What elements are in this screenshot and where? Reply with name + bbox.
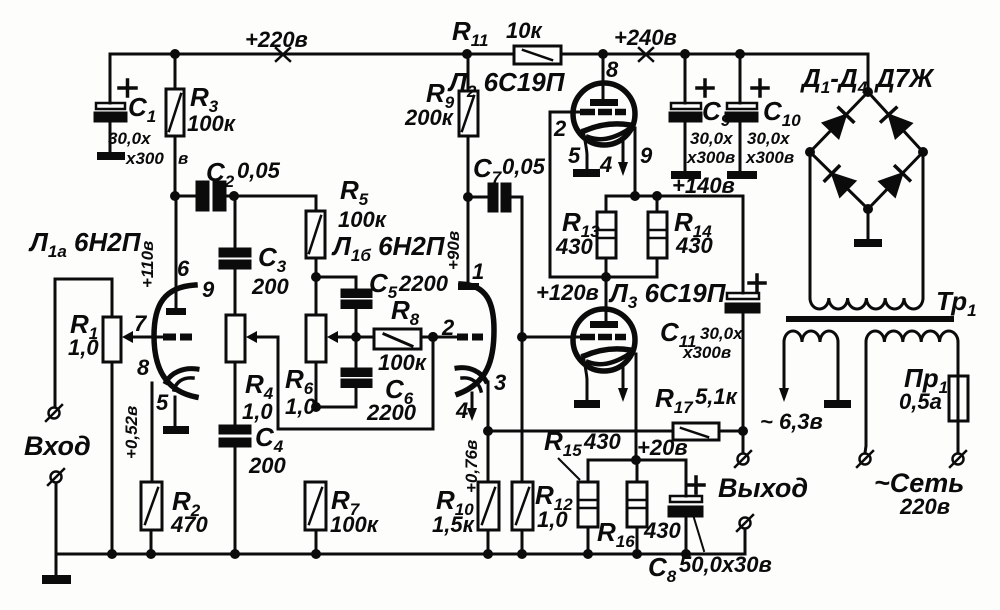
ground main symbol [42,554,71,584]
wire top bus [110,53,868,56]
label R13 value 430 [555,207,600,259]
wire L3 grid lead [522,336,580,339]
wire L3 cathode pin9 lead [635,354,638,460]
svg-text:1,0: 1,0 [68,335,99,360]
resistor R8 [356,329,433,349]
resistor R9 [459,54,478,197]
wire feedback loop R8 to R4 [252,337,433,429]
node break mark x +220v [276,48,290,61]
svg-text:430: 430 [643,518,681,543]
wire heater winding left lead arrow [779,342,789,402]
node R14 top junction [652,191,662,201]
resistor R5 [306,211,325,315]
svg-text:7: 7 [134,311,148,336]
label pin 2 L2 [553,116,567,141]
wire C3 chain [234,196,237,554]
svg-text:2: 2 [553,116,567,141]
capacitor C9 [670,54,713,171]
svg-text:+110в: +110в [138,241,157,288]
wire heater winding right lead [837,342,840,400]
triode L1b anode lead pin1 [467,197,470,283]
resistor R17 [673,423,719,440]
svg-text:Вход: Вход [24,431,91,461]
svg-text:100к: 100к [330,512,380,537]
svg-text:3: 3 [494,370,506,395]
label fuse Pr1 value [899,363,948,414]
label C1 value [108,92,188,168]
label C5 value 2200 [369,268,449,302]
label +110v vertical [138,241,157,288]
label tube L1b type [331,231,446,265]
wire transformer primary leads [810,152,923,298]
ground bar heater winding [824,400,851,408]
node C7 left junction [463,192,473,202]
wire L3 heater arrow [618,364,628,402]
label R2 value 470 [170,486,208,537]
resistor R1 potentiometer [55,279,121,554]
wire bridge bottom lead [867,209,870,239]
node R8 right junction [428,332,438,342]
svg-text:200к: 200к [404,105,455,130]
triode L1b grid dashes pin2 [457,334,483,341]
capacitor C7 [468,184,522,211]
svg-text:100к: 100к [378,350,428,375]
capacitor C11 [726,196,765,431]
label R17 value 5,1k [655,383,739,417]
transformer Tr1 mains winding [866,331,958,342]
svg-text:50,0х30в: 50,0х30в [679,552,772,577]
wire arrow into R4 [246,331,257,343]
svg-text:1,0: 1,0 [537,507,568,532]
resistor R6 potentiometer [306,315,355,407]
triode L1a cathode arc [166,369,197,390]
diode D3 lower left [825,166,855,196]
label R16 value 430 [597,517,681,551]
node output junction [738,426,748,436]
triode L1a grid dashes pin7 [163,334,192,341]
triode L2 anode lead pin8 [602,54,605,99]
label output [718,473,808,503]
svg-text:30,0х: 30,0х [747,129,791,148]
label C7 value 0,05 [473,153,546,187]
svg-text:1,0: 1,0 [285,394,316,419]
label pin 6 L1a [177,256,190,281]
wire L1b heater arrow pin4 [467,393,477,421]
label tube L1a type [28,227,142,261]
transformer Tr1 core [786,316,954,322]
label pin 2 L1b [441,315,455,340]
svg-text:4: 4 [455,398,468,423]
svg-text:9: 9 [202,277,215,302]
svg-text:+20в: +20в [637,435,688,460]
wire L3 pin5 lead [583,355,587,400]
svg-text:30,0х: 30,0х [700,324,744,343]
ground bar bridge [854,239,882,247]
label R3 value 100k [187,82,237,136]
svg-text:в: в [178,149,188,168]
svg-text:Л2 6С19П: Л2 6С19П [447,67,566,101]
label pin 5 L1a [156,390,169,415]
label R4 value 1,0 [242,369,274,424]
label pin 8 L1a [137,355,150,380]
label C6 value 2200 [366,374,417,425]
svg-text:220в: 220в [899,494,950,519]
label pin 7 L1a [134,311,148,336]
diode D2 upper right [881,108,911,138]
label mains 220v [874,468,964,519]
node R5 bottom junction [311,272,321,282]
label tube L2 type [447,67,566,101]
terminal output upper [735,431,751,467]
ground bar C9 [671,171,701,179]
ground bar L1a pin5 [163,426,189,434]
wire +20v rail R15 R16 C8 [588,460,686,496]
capacitor C10 [726,54,768,171]
svg-text:1,0: 1,0 [242,399,273,424]
resistor R2 [141,482,162,554]
node L3 grid junction [517,332,527,342]
triode L3 grid dashes [580,334,626,341]
node A1 anode junction [170,191,180,201]
terminal mains right [950,451,966,467]
svg-text:~ 6,3в: ~ 6,3в [760,409,823,434]
resistor R14 [648,196,667,277]
svg-text:+120в: +120в [536,280,599,305]
node R6 C6 bottom junction [311,402,321,412]
wire L1b grid lead [433,336,457,339]
resistor R7 [305,482,326,554]
wire L1a grid to R1 arrow [122,331,163,343]
triode L3 anode lead [605,277,608,321]
svg-text:Л3 6С19П: Л3 6С19П [608,278,727,312]
capacitor C2 [175,182,234,210]
node L3 cathode R16 junction [631,455,641,465]
label R15 value 430 [544,426,621,480]
svg-text:9: 9 [640,143,653,168]
resistor R11 [514,46,561,64]
terminal input lower [48,469,64,554]
label R5 value 100k [338,175,388,232]
svg-text:5: 5 [156,390,169,415]
label +220v [245,27,308,52]
triode L2 cathode arc [584,124,630,139]
svg-text:430: 430 [583,429,621,454]
svg-text:2: 2 [441,315,455,340]
node break mark x +240v [639,48,653,61]
svg-text:8: 8 [606,57,619,82]
label R7 value 100k [330,485,380,537]
triode L1b anode plate [458,283,479,290]
svg-text:0,05: 0,05 [237,158,281,183]
wire L2 cathode pin9 lead [634,128,637,196]
transformer Tr1 heater winding 6.3v [784,331,838,342]
triode L3 anode plate [590,321,618,328]
label +20v [637,435,688,460]
terminal output lower [737,515,753,554]
resistor R3 [166,54,184,196]
svg-text:+0,76в: +0,76в [462,440,481,493]
svg-text:2200: 2200 [398,271,449,296]
label transformer Tr1 [936,286,977,320]
triode L2 envelope circle [573,83,635,145]
triode U-L1a anode lead pin6 [175,196,178,308]
svg-text:Л1б 6Н2П: Л1б 6Н2П [331,231,446,265]
svg-text:5,1к: 5,1к [695,384,739,409]
wire L2 pin5 lead [583,130,587,169]
triode L1a envelope arc [154,285,196,397]
diode bridge frame [810,92,923,209]
resistor R12 [512,482,533,554]
label +0,52v vertical [122,406,141,459]
resistor R10 [478,482,499,554]
svg-text:х300: х300 [125,149,164,168]
resistor R15 [578,482,598,554]
label C10 value [745,96,801,167]
wire mains winding left lead [865,342,866,453]
triode L3 envelope circle [573,309,635,371]
node pin9 rail junction [630,191,640,201]
svg-text:430: 430 [555,234,593,259]
capacitor C3 [220,249,250,268]
label R1 value 1,0 [68,309,99,360]
wire mains winding right lead [957,342,960,376]
svg-text:1,5к: 1,5к [432,512,476,537]
svg-text:+0,52в: +0,52в [122,406,141,459]
label pin 4 L1b [455,398,468,423]
capacitor C4 [220,426,250,446]
svg-text:100к: 100к [338,207,388,232]
label +120v [536,280,599,305]
svg-text:2200: 2200 [366,400,417,425]
wire C7 to L3 grid and R12 [521,197,524,482]
wire L1a pin5 lead [174,397,177,426]
label tube L3 type [608,278,727,312]
label R12 value 1,0 [535,480,573,532]
svg-text:Д1-Д4: Д1-Д4 [800,63,868,97]
svg-text:200: 200 [251,274,289,299]
svg-text:+140в: +140в [672,173,735,198]
label R8 value 100k [378,295,428,375]
svg-text:8: 8 [137,355,150,380]
triode L1b cathode arc [457,368,486,391]
label C8 value [648,552,772,586]
ground bar L2 pin5 [573,169,600,177]
triode L2 grid dashes pin2 [580,109,626,116]
svg-text:Д7Ж: Д7Ж [874,63,935,93]
terminal mains left [857,451,873,467]
wire ground bus bottom [56,553,745,556]
svg-text:100к: 100к [187,111,237,136]
label pin 8 L2 [606,57,619,82]
wire C2 to R5 [234,196,316,211]
svg-text:х300в: х300в [686,148,735,167]
label pin 4 L2 [599,152,612,177]
node junction dots top bus [170,49,745,59]
ground bar L3 pin5 [574,400,600,408]
triode L2 anode plate [590,99,618,106]
diode D4 lower right [879,166,909,196]
svg-text:х300в: х300в [682,343,731,362]
resistor R16 [627,482,647,554]
label +90v vertical [444,231,463,270]
svg-text:470: 470 [170,512,208,537]
resistor R4 potentiometer [226,315,245,362]
label C11 value [660,317,744,362]
svg-text:+240в: +240в [614,25,677,50]
label pin 9 L1a [202,277,215,302]
svg-text:1: 1 [472,259,484,284]
label R9 value 200k [404,78,455,130]
resistor R13 [597,196,616,277]
label pin 5 L2 [568,143,581,168]
svg-text:х300в: х300в [745,148,794,167]
wire cathode feedback rail [488,430,743,433]
node L1b grid junction [428,332,438,342]
wire bridge top lead [867,54,870,92]
fuse Pr1 [949,376,968,453]
terminal input upper [46,405,62,421]
node A2 C2 right junction [229,191,239,201]
svg-text:430: 430 [675,233,713,258]
svg-text:Л1а 6Н2П: Л1а 6Н2П [28,227,142,261]
label +140v [672,173,735,198]
wire L1b cathode pin3 lead [487,382,490,554]
label input [24,431,91,461]
ground bar C10 [727,171,757,179]
node L1b cathode rail junction [483,426,493,436]
capacitor C1 [95,54,136,152]
svg-text:200: 200 [248,453,286,478]
label R6 value 1,0 [285,364,316,419]
diode D1 upper left [823,108,853,138]
triode L1b envelope arc [458,284,494,394]
node dots ground bus [107,549,691,559]
label pin 9 L2 [640,143,653,168]
ground bar C1 [97,152,125,160]
svg-text:30,0х: 30,0х [690,129,734,148]
svg-text:0,05: 0,05 [502,154,546,179]
svg-text:10к: 10к [506,18,543,43]
svg-text:30,0х: 30,0х [108,129,152,148]
capacitor C8 [669,477,704,554]
node +120v junction [601,272,611,282]
label C3 value 200 [251,242,289,299]
capacitor C6 [316,330,371,407]
label 6,3v winding [760,409,823,434]
triode L1a anode plate [166,308,186,315]
wire L1a cathode to R2 [151,383,154,482]
triode L3 cathode arc [584,349,630,364]
wire L2 heater arrow pin4 [618,138,628,176]
svg-text:5: 5 [568,143,581,168]
svg-text:4: 4 [599,152,612,177]
label pin 3 L1b [494,370,506,395]
wire +140v rail [606,195,743,198]
label diodes D1-D4 type D7Zh [800,63,935,97]
wire L2 grid to mid node [550,112,657,277]
transformer Tr1 primary winding [810,298,923,309]
svg-text:6: 6 [177,256,190,281]
svg-text:Выход: Выход [718,473,808,503]
node C5 C6 R8 junction [351,332,361,342]
capacitor C5 [316,277,371,330]
label C2 value 0,05 [206,157,281,191]
label pin 1 L1b [472,259,484,284]
label R14 value 430 [674,207,713,258]
label +0,76v vertical [462,440,481,493]
label C4 value 200 [248,422,286,478]
label +240v [614,25,677,50]
label R10 value 1,5k [432,485,476,537]
label R11 value 10k [452,16,543,50]
svg-text:+90в: +90в [444,231,463,270]
svg-text:0,5а: 0,5а [899,389,942,414]
svg-text:+220в: +220в [245,27,308,52]
label C9 value [686,96,735,167]
node bridge vertices [805,87,928,214]
